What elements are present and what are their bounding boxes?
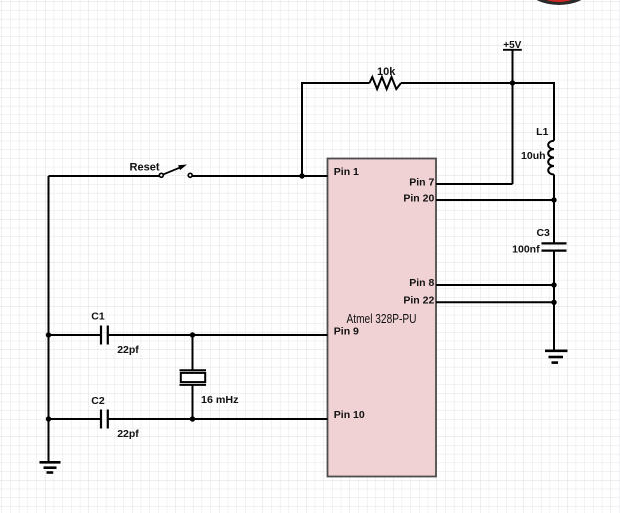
wire: reset net right segment into Pin 1	[192, 175, 327, 177]
pin label Pin 7	[409, 176, 434, 188]
label 22pf (C1)	[117, 344, 139, 356]
svg-text:Pin 1: Pin 1	[334, 166, 359, 178]
wire: left rail vertical	[48, 176, 50, 462]
svg-text:L1: L1	[536, 126, 548, 138]
svg-text:Pin 9: Pin 9	[334, 325, 359, 337]
pin label Pin 22	[403, 295, 434, 307]
label C2	[91, 395, 105, 407]
junction reset net / vertical to top net	[299, 173, 304, 178]
pin label Pin 20	[403, 192, 434, 204]
svg-text:100nf: 100nf	[512, 243, 540, 255]
ground symbol right	[545, 351, 568, 363]
svg-text:Pin 22: Pin 22	[403, 295, 434, 307]
svg-text:C1: C1	[91, 311, 105, 323]
svg-text:22pf: 22pf	[117, 428, 139, 440]
svg-text:22pf: 22pf	[117, 344, 139, 356]
svg-text:C2: C2	[91, 395, 105, 407]
wire: Pin 22 horizontal	[436, 301, 554, 303]
svg-text:Pin 20: Pin 20	[403, 192, 434, 204]
junction crystal / Pin 9 net	[190, 332, 195, 337]
svg-text:Pin 8: Pin 8	[409, 277, 434, 289]
label C3	[536, 227, 550, 239]
capacitor C2 plates	[101, 410, 108, 429]
svg-text:10uh: 10uh	[521, 150, 546, 162]
junction Pin 20 / right rail	[551, 197, 556, 202]
svg-text:Pin 10: Pin 10	[334, 409, 365, 421]
junction at +5V and top net	[510, 80, 515, 85]
wire: crystal top lead	[192, 335, 194, 370]
IC U1 body (Atmel 328P-PU)	[328, 159, 437, 477]
label 10uh	[521, 150, 546, 162]
label C1	[91, 311, 105, 323]
switch SW1 (Reset)	[159, 165, 192, 178]
resistor R1 zigzag	[370, 77, 402, 89]
junction Pin 22 / right rail	[551, 300, 556, 305]
wire: C2 left lead	[49, 418, 101, 420]
label 22pf (C2)	[117, 428, 139, 440]
pin label Pin 10	[334, 409, 365, 421]
wire: C2 right lead to Pin 10	[109, 418, 328, 420]
wire: Pin 8 horizontal	[436, 284, 554, 286]
label 10k	[377, 66, 396, 78]
wire: top net right segment from resistor to right rail	[401, 83, 554, 141]
wire: C1 left lead	[49, 334, 101, 336]
label Reset	[130, 162, 160, 174]
wire: vertical from +5V junction down to Pin 7	[512, 83, 514, 184]
svg-text:Reset: Reset	[130, 162, 160, 174]
wire: crystal bottom lead	[192, 385, 194, 419]
inductor L1 coil	[548, 141, 554, 175]
svg-text:Atmel 328P-PU: Atmel 328P-PU	[347, 312, 417, 326]
svg-text:10k: 10k	[377, 66, 396, 78]
svg-text:16 mHz: 16 mHz	[201, 394, 239, 406]
svg-text:C3: C3	[536, 227, 550, 239]
wire: reset net left segment	[49, 175, 160, 177]
wire: C1 right lead to Pin 9	[109, 334, 328, 336]
wire: Pin 20 horizontal	[436, 199, 554, 201]
crystal Y1 16 mHz	[180, 370, 207, 385]
pin label Pin 8	[409, 277, 434, 289]
junction Pin 8 / right rail	[551, 282, 556, 287]
svg-text:Pin 7: Pin 7	[409, 176, 434, 188]
IC U1 name label Atmel 328P-PU	[347, 312, 417, 326]
ground symbol left	[40, 462, 61, 472]
label 16 mHz	[201, 394, 239, 406]
capacitor C1 plates	[101, 326, 108, 345]
wire: right rail from coil to C3	[553, 175, 555, 244]
label L1	[536, 126, 548, 138]
junction C2 / left rail	[46, 416, 51, 421]
power +5V symbol	[503, 40, 522, 83]
wire: Pin 7 horizontal	[436, 183, 513, 185]
pin label Pin 9	[334, 325, 359, 337]
label 100nf	[512, 243, 540, 255]
wire: top net left segment to resistor	[302, 83, 370, 176]
wire: right rail below C3 to ground	[553, 251, 555, 351]
junction C1 / left rail	[46, 332, 51, 337]
junction crystal / Pin 10 net	[190, 416, 195, 421]
pin label Pin 1	[334, 166, 359, 178]
capacitor C3 plates	[542, 243, 567, 250]
clipped red logo at top edge	[530, 0, 588, 5]
